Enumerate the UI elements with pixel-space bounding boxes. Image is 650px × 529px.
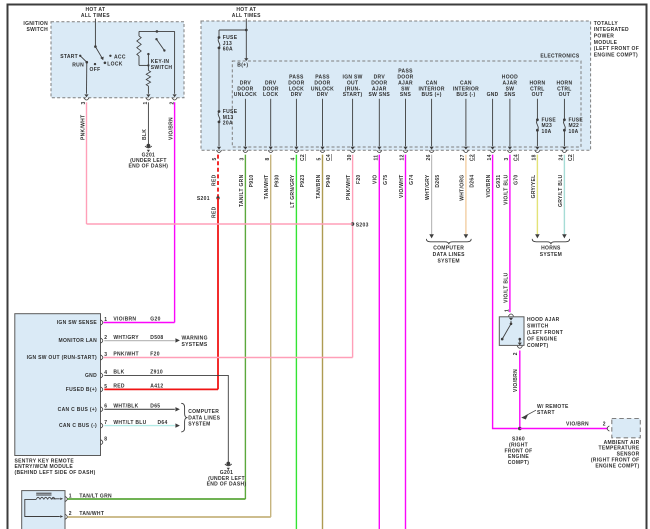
svg-text:SYSTEM: SYSTEM (540, 252, 562, 258)
svg-text:2: 2 (603, 422, 606, 428)
svg-text:C2: C2 (300, 154, 306, 161)
svg-text:VIO/BRN: VIO/BRN (168, 117, 174, 140)
svg-text:C4: C4 (326, 154, 332, 161)
svg-text:D265: D265 (435, 175, 441, 188)
svg-text:20A: 20A (223, 121, 233, 127)
svg-text:G931: G931 (496, 175, 502, 188)
svg-text:RUN: RUN (72, 62, 84, 68)
svg-text:P930: P930 (274, 175, 280, 188)
svg-text:(BEHIND LEFT SIDE OF DASH): (BEHIND LEFT SIDE OF DASH) (15, 470, 96, 476)
svg-text:INTEGRATED: INTEGRATED (594, 27, 629, 33)
svg-text:OUT: OUT (559, 92, 570, 98)
svg-text:2: 2 (69, 511, 72, 517)
svg-text:F20: F20 (150, 352, 160, 358)
svg-text:MODULE: MODULE (594, 40, 618, 46)
svg-text:RED: RED (211, 174, 217, 186)
svg-text:DATA LINES: DATA LINES (188, 415, 220, 421)
svg-text:P940: P940 (326, 175, 332, 188)
svg-text:ACC: ACC (114, 54, 126, 60)
svg-text:SNS: SNS (504, 92, 516, 98)
svg-text:SWITCH: SWITCH (527, 323, 549, 329)
svg-text:LT GRN/GRY: LT GRN/GRY (290, 174, 296, 208)
svg-text:VIO/BRN: VIO/BRN (513, 369, 519, 392)
svg-text:SYSTEM: SYSTEM (188, 422, 210, 428)
svg-text:START): START) (343, 92, 363, 98)
svg-text:LOCK: LOCK (107, 62, 122, 68)
svg-text:OUT: OUT (532, 92, 543, 98)
svg-text:18: 18 (532, 154, 538, 160)
svg-text:VIO/BRN: VIO/BRN (113, 317, 136, 323)
svg-text:(LEFT FRONT OF: (LEFT FRONT OF (594, 46, 639, 52)
svg-text:COMPUTER: COMPUTER (188, 409, 219, 415)
svg-text:END OF DASH): END OF DASH) (207, 482, 247, 488)
svg-text:D264: D264 (470, 175, 476, 188)
svg-text:SWITCH: SWITCH (26, 27, 48, 33)
svg-text:G75: G75 (383, 175, 389, 185)
svg-text:DRV: DRV (317, 92, 329, 98)
svg-text:8: 8 (104, 437, 107, 443)
svg-text:VIO/LT BLU: VIO/LT BLU (503, 174, 509, 204)
svg-text:BLK: BLK (113, 370, 124, 376)
svg-text:COMPT): COMPT) (527, 343, 549, 349)
svg-text:VIO/LT BLU: VIO/LT BLU (503, 272, 509, 302)
svg-text:G74: G74 (409, 175, 415, 185)
svg-text:TAN/BRN: TAN/BRN (316, 174, 322, 198)
svg-text:GND: GND (85, 373, 97, 379)
svg-text:(LEFT FRONT: (LEFT FRONT (527, 330, 563, 336)
svg-text:PNK/WHT: PNK/WHT (346, 175, 352, 200)
svg-text:LOCK: LOCK (263, 92, 278, 98)
svg-text:10A: 10A (569, 129, 579, 135)
svg-text:SYSTEM: SYSTEM (438, 258, 460, 264)
svg-text:C2: C2 (568, 154, 574, 161)
svg-text:24: 24 (559, 154, 565, 160)
svg-text:VIO/BRN: VIO/BRN (566, 422, 589, 428)
svg-text:PNK/WHT: PNK/WHT (113, 352, 138, 358)
svg-text:HORNS: HORNS (541, 246, 561, 252)
svg-text:ENGINE COMPT): ENGINE COMPT) (594, 53, 638, 59)
svg-text:WHT/BLK: WHT/BLK (113, 404, 138, 410)
svg-text:WHT/GRY: WHT/GRY (425, 174, 431, 200)
svg-text:CAN C BUS (+): CAN C BUS (+) (58, 407, 97, 413)
svg-text:VIO/BRN: VIO/BRN (486, 174, 492, 197)
svg-text:FUSED B(+): FUSED B(+) (66, 387, 97, 393)
svg-text:START: START (537, 410, 555, 416)
svg-text:UNLOCK: UNLOCK (234, 92, 257, 98)
svg-text:OFF: OFF (90, 67, 101, 73)
svg-text:D65: D65 (150, 404, 160, 410)
svg-text:COMPUTER: COMPUTER (433, 246, 464, 252)
svg-text:ALL TIMES: ALL TIMES (81, 13, 110, 19)
svg-text:VIO: VIO (373, 175, 379, 185)
svg-text:26: 26 (426, 154, 432, 160)
svg-text:TAN/WHT: TAN/WHT (264, 175, 270, 200)
svg-text:G70: G70 (514, 175, 520, 185)
svg-text:RED: RED (211, 206, 217, 218)
svg-text:TAN/WHT: TAN/WHT (79, 511, 104, 517)
svg-text:BUS (+): BUS (+) (421, 92, 441, 98)
svg-text:COMPT): COMPT) (508, 460, 530, 466)
svg-text:Z910: Z910 (150, 370, 163, 376)
svg-text:IGN SW SENSE: IGN SW SENSE (57, 320, 98, 326)
svg-text:10A: 10A (542, 129, 552, 135)
svg-text:END OF DASH): END OF DASH) (129, 164, 169, 170)
svg-text:G20: G20 (150, 317, 160, 323)
svg-text:PNK/WHT: PNK/WHT (80, 115, 86, 140)
svg-text:P910: P910 (249, 175, 255, 188)
svg-text:D508: D508 (150, 335, 163, 341)
svg-text:CAN C BUS (-): CAN C BUS (-) (59, 423, 97, 429)
svg-text:POWER: POWER (594, 34, 614, 40)
svg-text:P923: P923 (300, 175, 306, 188)
svg-text:TOTALLY: TOTALLY (594, 21, 619, 27)
svg-text:HOOD AJAR: HOOD AJAR (527, 317, 560, 323)
svg-text:GRY/YEL: GRY/YEL (531, 175, 537, 199)
svg-text:GRY/LT BLU: GRY/LT BLU (558, 174, 564, 207)
svg-text:DRV: DRV (291, 92, 303, 98)
svg-text:SYSTEMS: SYSTEMS (182, 342, 208, 348)
svg-text:GND: GND (487, 92, 499, 98)
svg-text:3: 3 (104, 352, 107, 358)
svg-text:S201: S201 (197, 196, 210, 202)
svg-text:S203: S203 (356, 223, 369, 229)
svg-text:SW SNS: SW SNS (369, 92, 391, 98)
svg-text:4: 4 (104, 370, 107, 376)
svg-text:TAN/LT GRN: TAN/LT GRN (239, 174, 245, 207)
svg-text:START: START (60, 54, 78, 60)
svg-text:F20: F20 (356, 175, 362, 185)
svg-text:ELECTRONICS: ELECTRONICS (540, 54, 579, 60)
svg-text:60A: 60A (223, 47, 233, 53)
svg-text:1: 1 (104, 317, 107, 323)
svg-text:2: 2 (513, 352, 519, 355)
svg-text:VIO/WHT: VIO/WHT (399, 175, 405, 199)
svg-text:WARNING: WARNING (182, 336, 208, 342)
svg-text:WHT/GRY: WHT/GRY (113, 335, 139, 341)
svg-text:SWITCH: SWITCH (151, 65, 173, 71)
svg-text:BLK: BLK (142, 129, 148, 140)
svg-text:1: 1 (504, 309, 510, 312)
svg-text:SNS: SNS (400, 92, 412, 98)
svg-text:MONITOR LAN: MONITOR LAN (59, 338, 98, 344)
svg-text:BUS (-): BUS (-) (456, 92, 475, 98)
svg-text:B(+): B(+) (237, 62, 248, 68)
svg-text:C2: C2 (470, 154, 476, 161)
svg-text:ALL TIMES: ALL TIMES (232, 13, 261, 19)
svg-text:C4: C4 (514, 154, 520, 161)
svg-text:ENGINE COMPT): ENGINE COMPT) (595, 463, 639, 469)
svg-text:IGN SW OUT (RUN-START): IGN SW OUT (RUN-START) (27, 355, 97, 361)
svg-text:WHT/ORG: WHT/ORG (459, 175, 465, 201)
svg-text:OF ENGINE: OF ENGINE (527, 336, 558, 342)
svg-text:DATA LINES: DATA LINES (433, 252, 465, 258)
